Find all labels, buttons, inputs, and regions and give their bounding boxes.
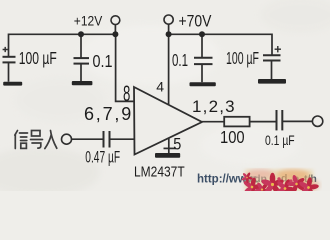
svg-text:0.47 µF: 0.47 µF (85, 147, 120, 166)
svg-text:+12V: +12V (74, 13, 103, 29)
svg-text:100 µF: 100 µF (19, 49, 57, 69)
svg-text:4: 4 (156, 79, 164, 95)
svg-text:0.1 µF: 0.1 µF (265, 132, 295, 148)
svg-text:8: 8 (123, 81, 130, 105)
svg-text:1,2,3: 1,2,3 (192, 97, 236, 116)
svg-text:+70V: +70V (179, 12, 212, 31)
svg-text:LM2437T: LM2437T (134, 163, 185, 180)
svg-text:5: 5 (173, 136, 181, 154)
svg-text:6,7,9: 6,7,9 (84, 104, 133, 124)
svg-text:100 µF: 100 µF (226, 49, 259, 69)
svg-text:0.1: 0.1 (172, 51, 188, 71)
svg-text:0.1: 0.1 (93, 52, 113, 72)
svg-text:100: 100 (220, 128, 245, 148)
